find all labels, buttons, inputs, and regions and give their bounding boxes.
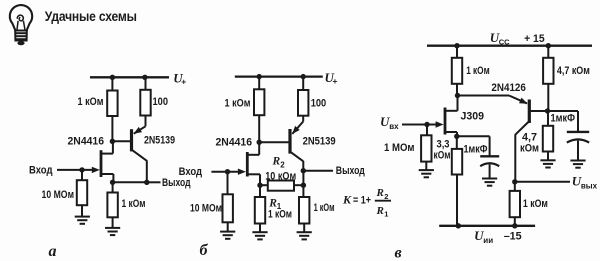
- svg-text:1 кОм: 1 кОм: [466, 65, 490, 77]
- svg-text:10 МОм: 10 МОм: [190, 203, 222, 215]
- svg-text:кОм: кОм: [520, 143, 539, 155]
- svg-text:J309: J309: [461, 111, 485, 123]
- svg-text:в: в: [395, 245, 402, 261]
- svg-text:3,3: 3,3: [437, 138, 450, 150]
- svg-text:а: а: [49, 243, 57, 260]
- svg-text:100: 100: [311, 98, 327, 110]
- svg-text:+: +: [333, 76, 338, 86]
- svg-text:1 кОм: 1 кОм: [225, 98, 251, 110]
- svg-text:1мкФ: 1мкФ: [551, 113, 576, 125]
- svg-text:Выход: Выход: [336, 165, 365, 177]
- svg-text:б: б: [200, 242, 209, 259]
- svg-text:1 кОм: 1 кОм: [268, 209, 292, 221]
- svg-text:+: +: [181, 77, 186, 87]
- svg-text:Вход: Вход: [179, 166, 203, 178]
- svg-text:2N4126: 2N4126: [491, 82, 526, 94]
- svg-text:1: 1: [384, 209, 388, 218]
- svg-text:1 кОм: 1 кОм: [314, 202, 335, 214]
- svg-text:4,7 кОм: 4,7 кОм: [557, 65, 590, 77]
- svg-text:100: 100: [153, 96, 169, 108]
- svg-text:CC: CC: [499, 37, 510, 46]
- svg-text:K: K: [342, 192, 352, 206]
- svg-text:–15: –15: [504, 231, 522, 243]
- svg-text:Удачные схемы: Удачные схемы: [45, 8, 137, 24]
- svg-text:1 МОм: 1 МОм: [384, 142, 415, 154]
- svg-text:2N5139: 2N5139: [303, 136, 336, 148]
- svg-text:Вход: Вход: [29, 164, 53, 176]
- svg-text:1мкФ: 1мкФ: [464, 143, 488, 155]
- svg-text:R: R: [376, 205, 384, 217]
- svg-text:кОм: кОм: [434, 150, 451, 162]
- svg-text:вых: вых: [581, 182, 598, 191]
- svg-text:2N5139: 2N5139: [144, 135, 175, 147]
- svg-text:2N4416: 2N4416: [216, 137, 253, 149]
- svg-text:ии: ии: [483, 236, 493, 245]
- svg-text:1 кОм: 1 кОм: [523, 198, 548, 210]
- svg-text:вх: вх: [389, 122, 399, 131]
- svg-text:R: R: [272, 156, 281, 168]
- svg-text:+ 15: + 15: [524, 33, 545, 45]
- svg-text:10 МОм: 10 МОм: [42, 189, 75, 201]
- svg-text:R: R: [376, 187, 384, 199]
- svg-text:2: 2: [280, 161, 285, 170]
- svg-text:1 кОм: 1 кОм: [122, 198, 146, 210]
- svg-text:2: 2: [384, 192, 388, 201]
- svg-text:Выход: Выход: [162, 177, 191, 189]
- svg-text:1 кОм: 1 кОм: [78, 96, 104, 108]
- svg-text:10 кОм: 10 кОм: [265, 170, 296, 182]
- svg-text:2N4416: 2N4416: [68, 135, 105, 147]
- svg-text:= 1+: = 1+: [353, 194, 371, 206]
